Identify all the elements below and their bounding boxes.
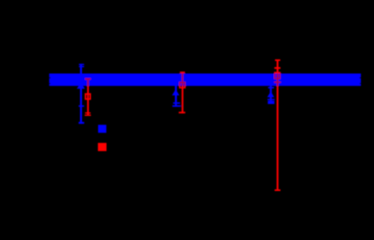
lower cap block (outer caps merged) — [268, 101, 275, 104]
lower cap (inner) — [79, 105, 85, 107]
lower cap (outer) — [79, 122, 85, 124]
vertical error line — [175, 85, 177, 107]
lower cap (outer) — [172, 105, 180, 107]
measurement 2 : blue error bar — [172, 85, 181, 107]
top cap (outer) — [79, 64, 84, 65]
lower cap (inner) — [173, 102, 180, 104]
right axis tick notches over band — [360, 77, 361, 78]
marker: filled triangle-up — [77, 83, 85, 89]
left axis tick notches over band — [49, 77, 50, 78]
upper cap (below band) — [268, 87, 274, 89]
marker: filled triangle-up — [172, 89, 179, 95]
vertical error line — [270, 85, 272, 104]
legend marker: blue filled square — [98, 125, 106, 133]
average band (blue) — [49, 74, 361, 86]
red error bars (under-band pass, full opacity) — [85, 59, 281, 191]
marker: filled triangle-up — [267, 92, 274, 98]
measurement 1 : blue error bar — [77, 64, 85, 124]
top cap (inner) — [79, 66, 84, 67]
legend marker: red filled square — [98, 143, 107, 151]
red error bars (over-band pass, blended) — [85, 59, 281, 191]
measurement 3 : blue error bar — [267, 85, 274, 104]
vertical error line — [80, 64, 82, 124]
lower cap (inner) — [268, 99, 275, 100]
